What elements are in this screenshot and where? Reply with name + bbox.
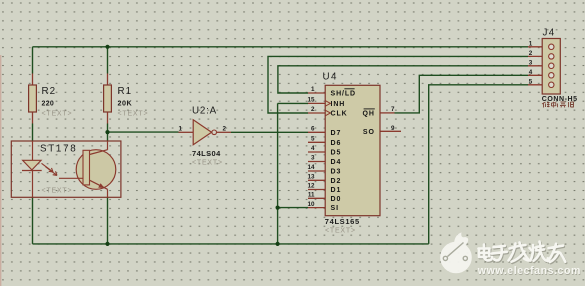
svg-text:<TEXT>: <TEXT> — [42, 188, 73, 195]
svg-text:SO: SO — [363, 129, 375, 136]
wire R1 top drop — [107, 47, 109, 74]
U4 pin 9 stub SO — [380, 130, 401, 132]
resistor R2 pin stubs — [32, 74, 34, 124]
wire J4 pin2 to U4 CLK — [268, 56, 528, 113]
phototransistor emitter pin inside box — [107, 189, 109, 197]
svg-text:12: 12 — [307, 183, 315, 190]
watermark leaf — [454, 232, 468, 248]
U4 pin 14 stub — [308, 170, 325, 172]
wire bottom rail — [33, 243, 429, 245]
svg-text:14: 14 — [307, 164, 315, 171]
U4 pin 5 stub — [308, 141, 325, 143]
svg-text:<TEXT>: <TEXT> — [118, 111, 149, 118]
left-edge artifact line — [0, 55, 2, 286]
wire LED cathode to bottom rail — [32, 197, 34, 244]
svg-text:R2: R2 — [42, 86, 57, 97]
watermark node ring left — [443, 256, 447, 260]
svg-text:SH/LD: SH/LD — [331, 91, 357, 98]
J4 pin stubs 1-5 — [528, 47, 542, 85]
svg-text:2: 2 — [223, 125, 227, 132]
wire INH tap — [278, 102, 308, 104]
LED cathode pin inside box — [32, 171, 34, 198]
wire R2 bottom to ST178 — [32, 124, 34, 142]
junction node INH rail / bottom rail — [276, 242, 280, 246]
svg-text:2: 2 — [529, 50, 533, 57]
svg-text:CLK: CLK — [331, 111, 348, 118]
watermark chinese text shadow — [479, 243, 566, 264]
U4 clock mark INH — [325, 101, 330, 107]
svg-text:1: 1 — [311, 86, 315, 93]
svg-text:7: 7 — [391, 106, 395, 113]
watermark node ring right — [463, 256, 467, 260]
J4 pin circle 3 — [549, 63, 554, 68]
svg-text:9: 9 — [391, 125, 395, 132]
U4 pin 7 stub QH — [380, 112, 395, 114]
phototransistor emitter lead — [90, 180, 108, 189]
svg-text:220: 220 — [42, 101, 55, 108]
LED emission arrow 1 — [42, 163, 58, 175]
watermark chinese character shao — [530, 242, 548, 261]
watermark trace line — [448, 243, 464, 257]
phototransistor circle — [76, 150, 116, 190]
svg-text:3: 3 — [311, 155, 315, 162]
svg-text:<TEXT>: <TEXT> — [192, 160, 223, 167]
svg-text:D4: D4 — [331, 159, 342, 166]
U2:A output pin stub — [217, 131, 231, 133]
svg-text:D1: D1 — [331, 187, 342, 194]
J4 pin circle 1 — [549, 44, 554, 49]
U4 pin 4 stub — [308, 151, 325, 153]
U4 pin 11 stub — [308, 197, 325, 199]
svg-text:1: 1 — [178, 125, 182, 132]
U4 pin 6 stub — [308, 131, 325, 133]
svg-text:5: 5 — [311, 136, 315, 143]
svg-text:5: 5 — [529, 78, 533, 85]
svg-text:www.elecfans.com: www.elecfans.com — [477, 265, 581, 277]
svg-text:4: 4 — [311, 145, 315, 152]
U4 SH/LD overline — [344, 88, 354, 90]
watermark chinese character dian — [479, 245, 492, 261]
U4 clock mark CLK — [325, 110, 330, 116]
U4 pin 2 stub — [308, 112, 325, 114]
U2:A output bubble — [212, 130, 217, 135]
svg-text:U4: U4 — [323, 72, 338, 83]
LED anode pin inside box — [32, 141, 34, 160]
svg-text:D5: D5 — [331, 150, 342, 157]
wire top rail from R2 top to J4 pin1 — [33, 46, 529, 48]
svg-text:SI: SI — [331, 205, 339, 212]
LED cathode bar — [22, 170, 42, 172]
svg-text:3: 3 — [529, 59, 533, 66]
wire INH rail vertical — [277, 103, 279, 244]
svg-text:74LS04: 74LS04 — [192, 149, 221, 158]
op-amp U2:A inverter triangle — [193, 120, 211, 145]
resistor R1 body — [104, 85, 112, 112]
svg-text:1: 1 — [529, 40, 533, 47]
svg-text:D2: D2 — [331, 178, 342, 185]
U4 QH overline — [364, 108, 375, 110]
svg-text:D7: D7 — [331, 130, 342, 137]
watermark chinese character zi — [492, 246, 507, 261]
U2:A input pin stub — [179, 131, 194, 133]
wire SI tap — [278, 207, 308, 209]
svg-text:74LS165: 74LS165 — [325, 217, 360, 226]
wire right riser to J4 pin5 — [429, 85, 528, 244]
U4 pin 12 stub — [308, 189, 325, 191]
J4 pin circle 2 — [549, 54, 554, 59]
wire collector rise — [107, 132, 109, 141]
junction node emitter / bottom rail — [105, 242, 109, 246]
wire QH to J4 pin4 — [395, 75, 529, 113]
U4 pin 15 stub — [308, 102, 325, 104]
phototransistor base lead — [59, 177, 83, 179]
resistor R1 pin stubs — [107, 74, 109, 124]
svg-text:13: 13 — [307, 174, 315, 181]
U4 pin 10 stub — [308, 207, 325, 209]
LED emission arrow 2 — [46, 167, 58, 176]
svg-text:D3: D3 — [331, 169, 342, 176]
phototransistor emitter arrowhead — [98, 183, 104, 188]
U4 pin 13 stub — [308, 179, 325, 181]
svg-text:D6: D6 — [331, 140, 342, 147]
LED D triangle — [23, 160, 41, 170]
svg-text:10: 10 — [307, 201, 315, 208]
J4 pin circle 5 — [549, 82, 554, 87]
phototransistor base bar — [83, 150, 90, 185]
junction node INH / SI — [276, 206, 280, 210]
svg-text:4: 4 — [529, 69, 533, 76]
optocoupler ST178 outline box — [11, 141, 121, 197]
resistor R2 body — [29, 85, 37, 112]
U4 chip body 74LS165 — [325, 85, 380, 215]
junction node R1 / inverter / collector — [105, 130, 109, 134]
svg-text:<TEXT>: <TEXT> — [325, 228, 356, 235]
svg-text:R1: R1 — [118, 86, 133, 97]
svg-text:2: 2 — [311, 106, 315, 113]
Chinese label under J4 (detection module) — [542, 102, 574, 108]
svg-text:QH: QH — [362, 111, 374, 118]
wire J4 pin3 to U4 SH/LD — [278, 66, 528, 93]
wire R2 top drop — [32, 47, 34, 74]
svg-text:11: 11 — [308, 192, 315, 199]
watermark logo circle — [440, 232, 472, 273]
wire inverter output to U4 D7 — [231, 131, 308, 133]
svg-text:D0: D0 — [331, 196, 342, 203]
svg-text:J4: J4 — [543, 28, 556, 39]
svg-text:20K: 20K — [118, 99, 133, 108]
U4 pin 1 stub — [308, 92, 325, 94]
wire emitter drop — [107, 197, 109, 244]
wire node to inverter input — [108, 131, 179, 133]
wire R1 bottom to node — [107, 124, 109, 133]
svg-text:6: 6 — [311, 126, 315, 133]
svg-text:ST178: ST178 — [40, 144, 77, 155]
phototransistor collector pin inside box — [107, 141, 109, 150]
svg-text:15: 15 — [307, 97, 315, 104]
connector J4 body — [542, 39, 560, 95]
svg-text:U2:A: U2:A — [192, 106, 217, 117]
phototransistor collector lead — [90, 150, 108, 155]
J4 pin circle 4 — [549, 73, 554, 78]
svg-text:<TEXT>: <TEXT> — [42, 111, 73, 118]
U4 pin 3 stub — [308, 161, 325, 163]
svg-text:INH: INH — [331, 101, 346, 108]
watermark chinese character fa — [509, 243, 530, 262]
junction node top rail / R1 — [105, 45, 109, 49]
watermark chinese character you — [548, 244, 566, 262]
